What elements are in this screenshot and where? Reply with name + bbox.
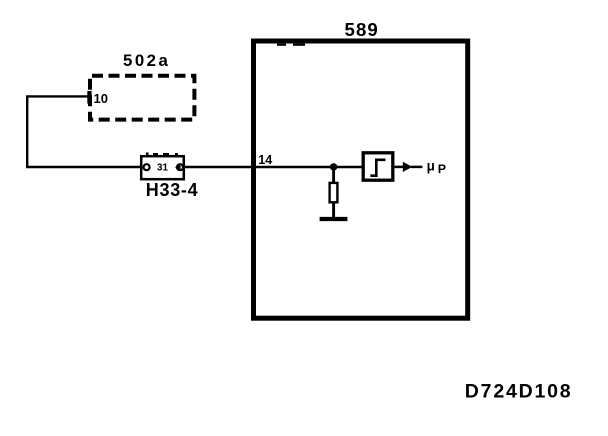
svg-text:D724D108: D724D108 bbox=[465, 381, 573, 403]
svg-text:589: 589 bbox=[345, 19, 379, 40]
svg-text:P: P bbox=[438, 162, 446, 176]
svg-text:502a: 502a bbox=[123, 51, 170, 70]
svg-text:14: 14 bbox=[258, 153, 272, 167]
svg-text:10: 10 bbox=[94, 91, 108, 106]
svg-text:μ: μ bbox=[427, 159, 435, 174]
svg-text:31: 31 bbox=[157, 163, 168, 174]
svg-text:H33-4: H33-4 bbox=[146, 180, 199, 200]
